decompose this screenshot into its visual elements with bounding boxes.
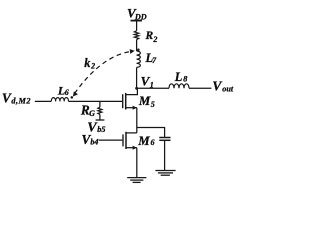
- svg-text:b5: b5: [97, 125, 105, 134]
- node dot at L6 right: [71, 96, 74, 99]
- svg-text:6: 6: [151, 138, 155, 147]
- wire L7 to node V1: [136, 67, 138, 88]
- M5 source wire: [126, 107, 137, 109]
- power VDD bar: [131, 20, 142, 22]
- wire VDD to R2: [136, 21, 138, 31]
- resistor RG: [98, 107, 102, 114]
- node dot at L7 top: [137, 49, 140, 52]
- ground under M6: [127, 177, 146, 179]
- svg-text:M: M: [138, 94, 151, 108]
- capacitor C plates: [159, 137, 170, 139]
- coupling k2 dashed arc: [75, 51, 132, 93]
- svg-text:G: G: [89, 109, 95, 118]
- wire Vd,M2 to L6: [35, 100, 52, 102]
- M6 source arrow: [133, 146, 137, 150]
- k2 arrow at L7 end: [130, 49, 135, 54]
- svg-text:d,M2: d,M2: [11, 97, 31, 106]
- svg-text:7: 7: [152, 56, 157, 65]
- wire capacitor to ground: [164, 141, 166, 170]
- svg-text:V: V: [212, 78, 222, 93]
- svg-text:M: M: [137, 134, 150, 148]
- svg-text:DD: DD: [134, 12, 147, 21]
- svg-text:out: out: [222, 84, 234, 93]
- Vb5 terminal bar: [96, 119, 105, 121]
- M6 gate wire from Vb4: [99, 139, 123, 141]
- wire node V1 to L8: [137, 87, 169, 89]
- svg-text:R: R: [145, 30, 154, 42]
- resistor R2: [134, 31, 139, 40]
- svg-text:5: 5: [151, 100, 155, 109]
- M6 source wire: [126, 147, 137, 149]
- ground under capacitor: [155, 170, 175, 172]
- inductor L8: [169, 84, 189, 89]
- M6 source to ground wire: [136, 148, 138, 178]
- svg-text:2: 2: [90, 61, 95, 70]
- wire RG to Vb5 bar: [99, 114, 101, 119]
- wire junction to RG: [99, 101, 101, 107]
- svg-text:V: V: [2, 91, 12, 106]
- transistor M5 channel bar: [125, 93, 127, 110]
- wire R2 to L7: [136, 40, 138, 51]
- transistor M5 gate bar: [122, 94, 124, 108]
- wire branch to capacitor: [137, 128, 165, 137]
- node dot V1: [135, 87, 138, 90]
- M5 drain wire: [126, 88, 138, 94]
- svg-text:6: 6: [65, 88, 69, 97]
- inductor L6: [51, 98, 68, 102]
- M6 drain wire: [126, 132, 137, 134]
- transistor M6 gate bar: [122, 134, 124, 146]
- inductor L7: [137, 51, 141, 67]
- svg-text:2: 2: [152, 35, 157, 44]
- svg-text:L: L: [174, 70, 183, 84]
- svg-text:b4: b4: [90, 137, 98, 146]
- svg-text:8: 8: [183, 74, 187, 83]
- wire L6 to M5 gate: [69, 100, 123, 102]
- svg-text:1: 1: [150, 81, 154, 90]
- transistor M6 channel bar: [125, 132, 127, 149]
- M5 source to M6 drain wire: [136, 108, 138, 133]
- k2 arrow at L6 end: [73, 91, 78, 96]
- wire L8 to Vout: [189, 87, 211, 89]
- M5 source arrow: [133, 106, 137, 110]
